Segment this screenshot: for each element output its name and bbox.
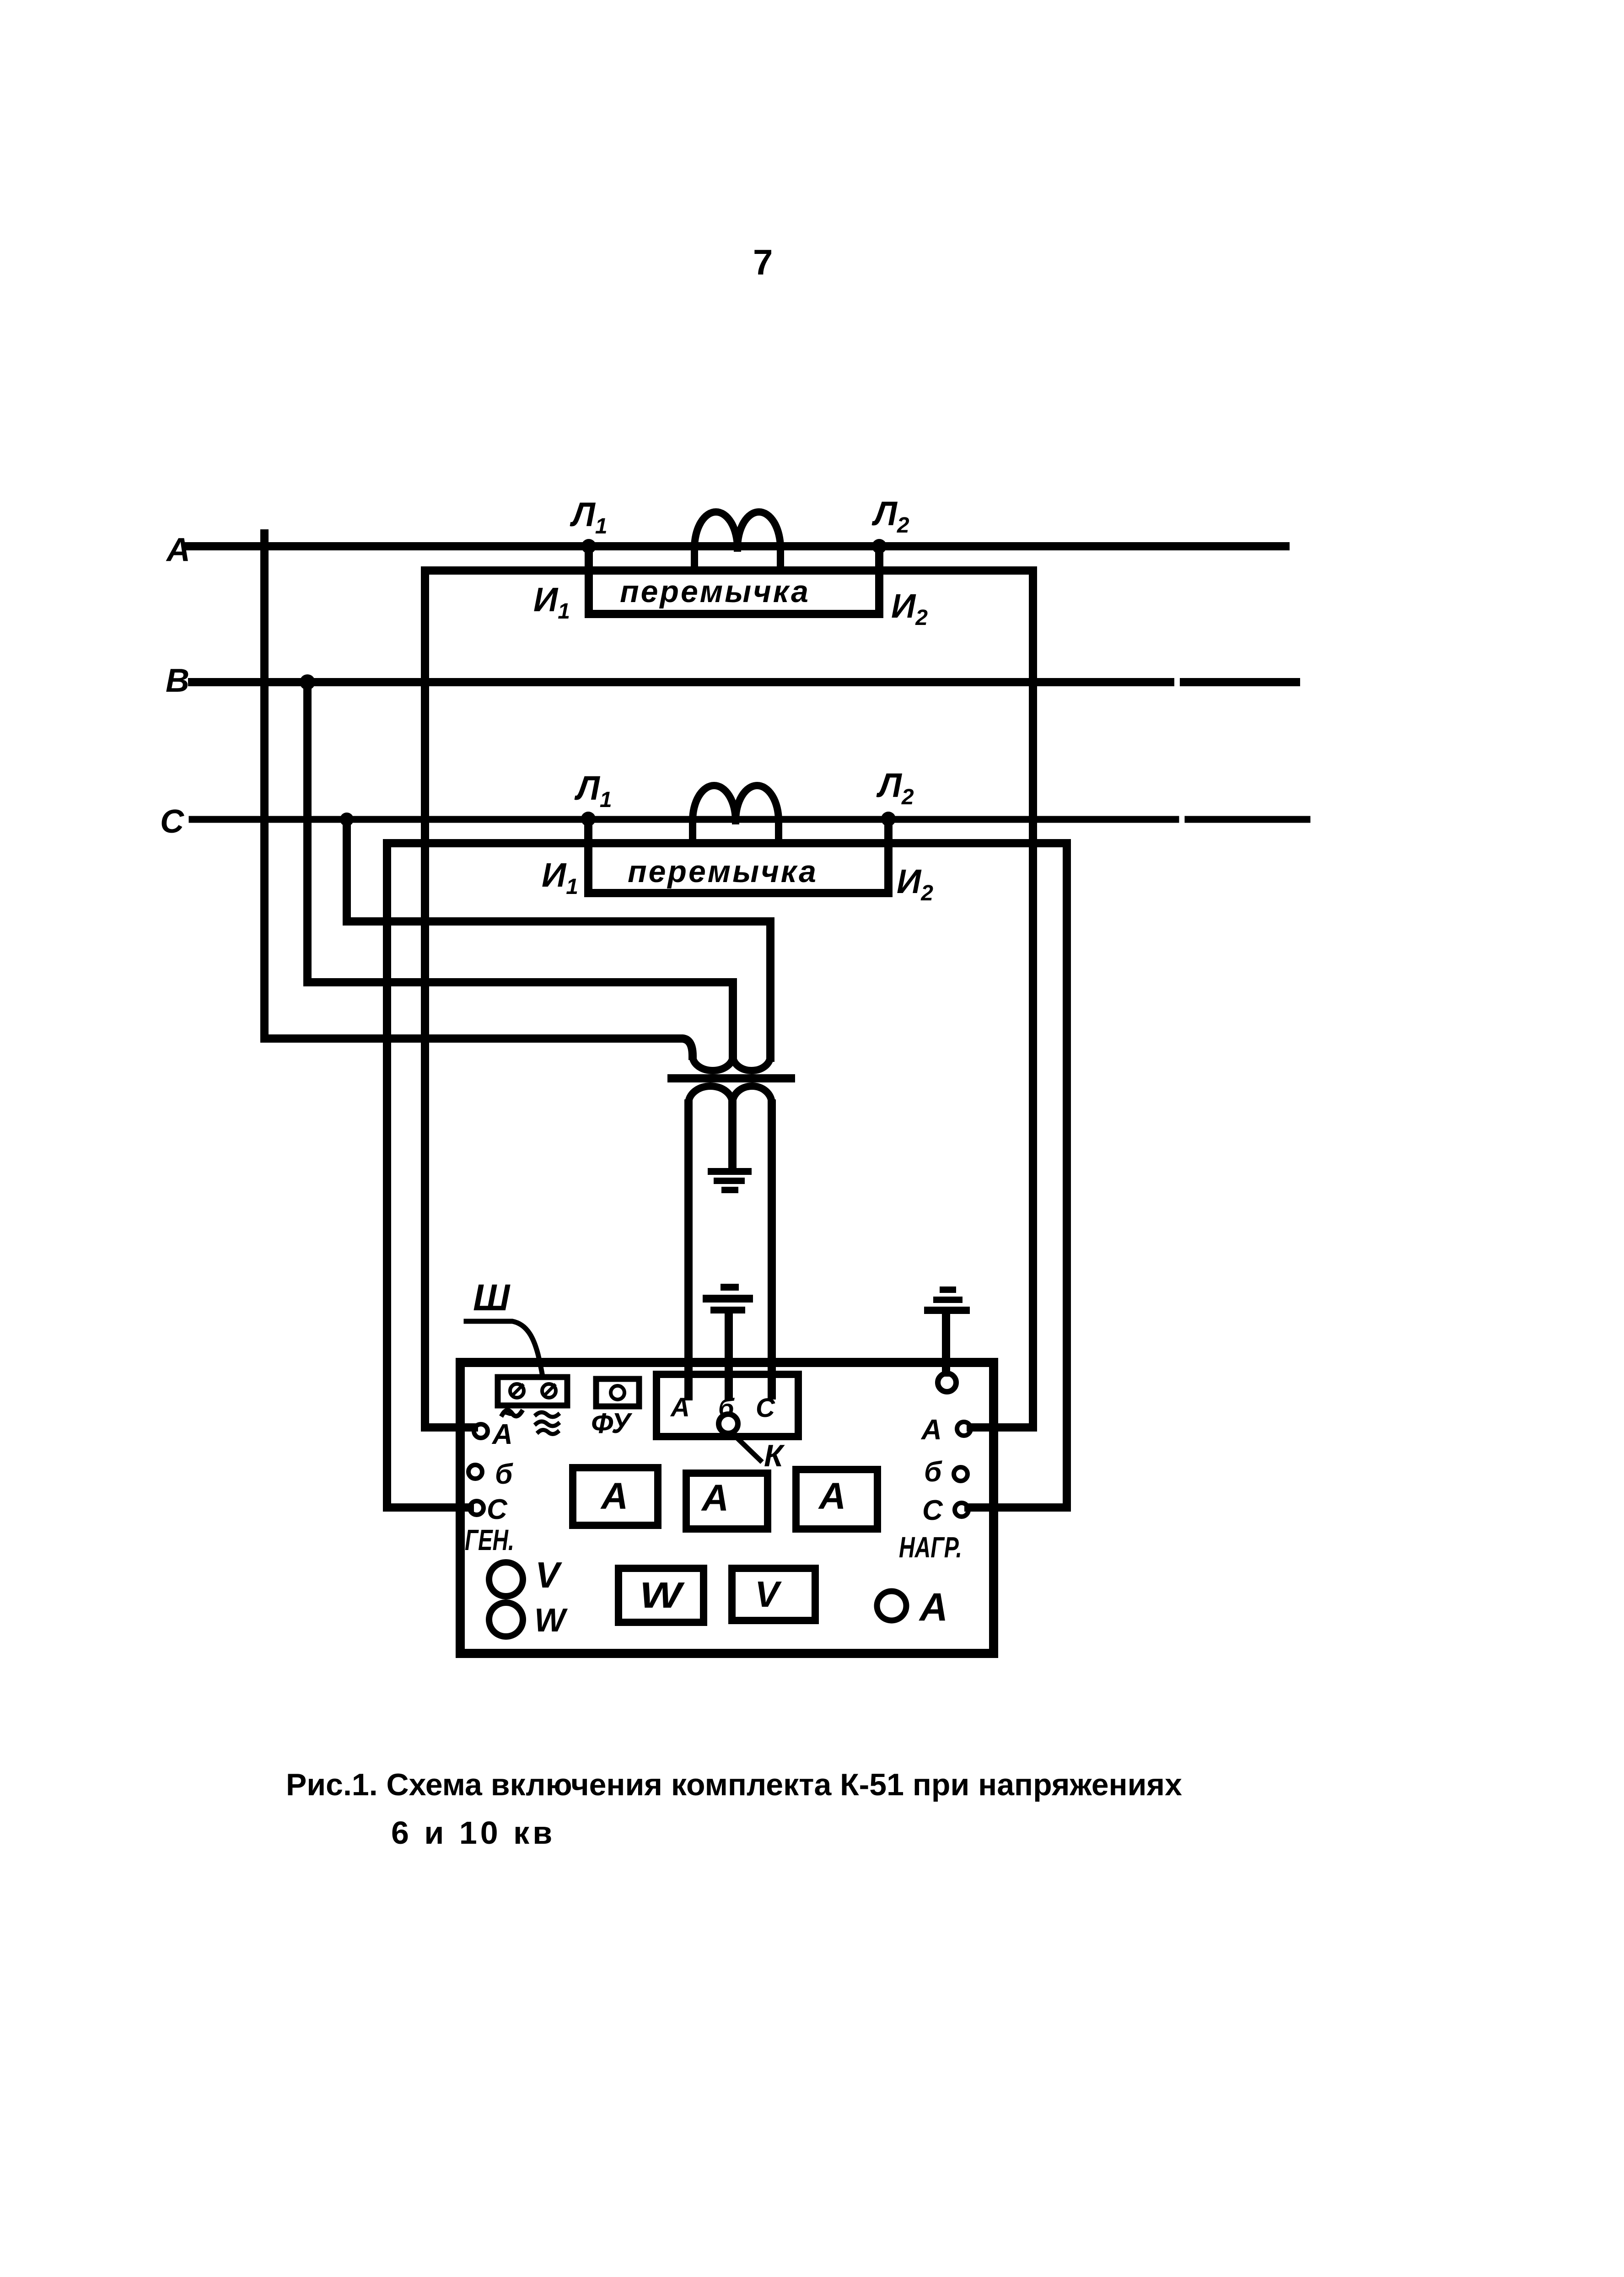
ground symbol at VT secondary mid tap — [708, 1168, 752, 1193]
transformer VT core — [667, 1074, 795, 1082]
ГЕН terminal А label (with tilde) — [502, 1410, 522, 1416]
wire CT2 secondary right drop to НАГР С — [1063, 843, 1071, 1507]
jack circle ФУ — [611, 1386, 624, 1400]
device К-51 panel box — [460, 1362, 994, 1653]
transformer CT1 primary loop (on line A) — [694, 512, 780, 571]
wire from НАГР А ring to right drop — [971, 1423, 1033, 1432]
svg-text:Л2: Л2 — [871, 495, 909, 538]
НАГР terminal Б ring — [954, 1467, 968, 1481]
svg-text:7: 7 — [753, 242, 773, 282]
ground symbol at НАГР neutral terminal — [924, 1287, 970, 1314]
svg-text:Рис.1. Схема включения комплек: Рис.1. Схема включения комплекта К-51 пр… — [286, 1767, 1182, 1802]
transformer VT primary winding — [693, 1056, 770, 1071]
wire ground stem to terminal Б — [725, 1311, 733, 1396]
svg-text:А: А — [920, 1414, 942, 1446]
svg-text:б: б — [924, 1456, 942, 1488]
svg-text:НАГР.: НАГР. — [899, 1531, 962, 1564]
wire from CT1 left drop to ГЕН А — [425, 1423, 474, 1432]
НАГР terminal С ring — [955, 1503, 968, 1517]
wire CT1 И2 stub — [875, 546, 883, 614]
wire ground stem to neutral ring terminal — [942, 1314, 950, 1373]
transformer CT2 primary loop (on line C) — [693, 786, 779, 843]
label К with leader — [736, 1437, 760, 1460]
wire CT1 И1 stub — [585, 546, 593, 614]
bus line B wire — [192, 678, 1296, 686]
wire phase A drop (from line A to VT primary) — [264, 533, 693, 1056]
wire from НАГР С ring to right drop — [968, 1503, 1067, 1512]
svg-text:6 и 10 кв: 6 и 10 кв — [391, 1815, 555, 1851]
wattmeter PW — [618, 1568, 704, 1622]
bus line A wire — [189, 542, 1285, 550]
terminal block А-Б-С of VT secondary input — [656, 1374, 798, 1437]
wire phase C drop (from line C to VT primary) — [347, 819, 770, 1058]
terminal Л1 dot of CT1 — [581, 539, 596, 554]
terminal Л1 dot of CT2 — [581, 812, 596, 826]
svg-text:Ш: Ш — [473, 1277, 511, 1319]
pin Б stub — [725, 1377, 733, 1396]
jack circle 1 — [510, 1384, 524, 1398]
svg-text:А: А — [919, 1585, 948, 1629]
wire from CT2 left drop to ГЕН С — [387, 1503, 470, 1512]
wire CT1 secondary bus — [425, 566, 1033, 575]
svg-text:V: V — [535, 1555, 562, 1595]
svg-text:перемычка: перемычка — [620, 574, 810, 609]
transformer VT secondary winding — [688, 1086, 772, 1104]
svg-text:W: W — [534, 1602, 568, 1639]
svg-text:W: W — [640, 1575, 685, 1615]
svg-text:А: А — [491, 1419, 513, 1450]
ГЕН terminal А ring — [474, 1424, 488, 1438]
svg-text:С: С — [160, 803, 184, 840]
node junction dot on line B — [300, 674, 315, 690]
wire CT1 secondary left drop to ГЕН А — [421, 571, 429, 1427]
neutral ring terminal — [938, 1373, 956, 1392]
НАГР terminal А ring — [957, 1422, 971, 1436]
wire CT2 secondary bus — [387, 839, 1067, 847]
svg-text:К: К — [764, 1438, 785, 1473]
label ≈ under jacks — [536, 1412, 558, 1434]
jack block 2 (ФУ) — [596, 1379, 639, 1406]
terminal А circle (НАГР side) — [877, 1591, 906, 1620]
voltmeter PV — [732, 1568, 815, 1620]
terminal V circle (ГЕН side) — [489, 1562, 523, 1596]
jack circle 2 — [542, 1384, 556, 1398]
ground symbol above terminal Б of panel — [703, 1284, 753, 1313]
svg-text:Л1: Л1 — [574, 769, 612, 812]
terminal W circle (ГЕН side) — [489, 1603, 523, 1636]
jumper (перемычка) bottom wire of CT1 — [589, 610, 879, 618]
wire VT secondary right lead — [768, 1104, 776, 1393]
ammeter PA1 — [573, 1468, 658, 1525]
svg-text:А: А — [600, 1475, 628, 1517]
svg-text:ФУ: ФУ — [591, 1408, 633, 1439]
svg-text:С: С — [922, 1495, 943, 1526]
wire VT secondary mid tap — [728, 1104, 737, 1168]
pin С stub — [768, 1377, 776, 1395]
wire CT2 И1 stub — [584, 819, 592, 893]
pin А stub — [684, 1377, 693, 1396]
svg-text:V: V — [755, 1574, 782, 1615]
ГЕН terminal Б ring — [468, 1465, 482, 1479]
ammeter PA2 — [686, 1473, 768, 1529]
ammeter PA3 — [796, 1470, 877, 1529]
pin Б ring terminal — [719, 1414, 738, 1433]
svg-text:б: б — [495, 1459, 513, 1490]
svg-text:А: А — [818, 1475, 846, 1517]
wire CT2 secondary left drop to ГЕН С — [383, 843, 391, 1507]
svg-text:А: А — [670, 1393, 690, 1422]
wire CT1 secondary right drop to НАГР А — [1029, 571, 1037, 1427]
shunt jacks block — [498, 1377, 567, 1405]
svg-text:Л1: Л1 — [570, 495, 608, 538]
terminal Л2 dot of CT1 — [872, 539, 887, 554]
svg-text:И1: И1 — [533, 581, 570, 624]
svg-text:Л2: Л2 — [876, 766, 914, 809]
svg-text:А: А — [701, 1477, 729, 1519]
svg-text:И2: И2 — [891, 587, 928, 630]
node junction dot on line C — [340, 813, 354, 826]
svg-text:ГЕН.: ГЕН. — [465, 1523, 514, 1556]
wire CT2 И2 stub — [884, 819, 893, 893]
terminal Л2 dot of CT2 — [881, 812, 896, 826]
svg-text:перемычка: перемычка — [628, 854, 818, 889]
ГЕН terminal С ring — [470, 1501, 484, 1515]
wire phase B drop (from line B to VT primary) — [307, 682, 733, 1058]
jumper (перемычка) bottom wire of CT2 — [588, 889, 888, 897]
leader line from Ш to shunt jacks — [466, 1321, 543, 1376]
svg-text:В: В — [166, 662, 189, 699]
bus line C wire — [192, 816, 1307, 823]
svg-text:С: С — [756, 1393, 775, 1423]
svg-text:И2: И2 — [897, 862, 933, 905]
svg-text:И1: И1 — [542, 856, 578, 899]
wire VT secondary left lead — [684, 1104, 693, 1393]
svg-text:С: С — [487, 1494, 508, 1525]
